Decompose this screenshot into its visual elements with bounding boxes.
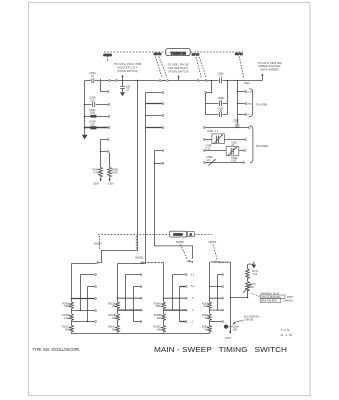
dashed ganged-switch line SW5 (top) <box>104 52 243 62</box>
note: to cathode pins 3 and 8 sweep holdoff <box>258 61 283 72</box>
capacitor C56 <box>120 81 131 93</box>
wire: plug feed vertical <box>237 81 239 125</box>
svg-text:(SW/CH): (SW/CH) <box>284 300 294 303</box>
resistor R174 divider top <box>246 264 259 281</box>
svg-text:SW50C: SW50C <box>176 241 185 244</box>
switch section label SW160D <box>208 241 217 260</box>
svg-text:10K: 10K <box>203 305 208 308</box>
wire: C58 ladder left vertical <box>205 81 213 115</box>
capacitor C58B <box>206 97 228 106</box>
note: variable uncalibrated with multiplier switch <box>260 292 293 302</box>
wafer 2 main vertical with resistors <box>116 264 145 334</box>
svg-text:T. G. W.: T. G. W. <box>281 329 290 332</box>
svg-text:SW 5B: SW 5B <box>154 53 162 56</box>
resistor R161A <box>108 302 116 308</box>
note: aux switch pointer <box>232 316 259 325</box>
svg-text:(TO CATH. PIN 8, V54B: (TO CATH. PIN 8, V54B <box>114 62 142 66</box>
capacitor C54D <box>84 121 110 130</box>
svg-text:2M: 2M <box>112 305 115 308</box>
mechanical dashed link SW5D <box>239 57 243 78</box>
svg-text:TIME/CM: TIME/CM <box>170 51 186 55</box>
contact stubs of SW5B lower deck <box>146 92 164 165</box>
resistor R161C <box>108 326 116 332</box>
capacitor C58D <box>233 119 240 127</box>
wafer 3 position value labels <box>191 273 196 323</box>
wafer 2 interconnects and contacts <box>117 274 142 323</box>
note: to grid pin 3 and 7 V52 <box>168 63 190 74</box>
svg-text:4.7M: 4.7M <box>93 171 99 174</box>
svg-text:6-25: 6-25 <box>231 160 236 163</box>
label C59B <box>205 145 211 151</box>
wire: selected-capacitor feed down to lower deck <box>102 81 138 262</box>
svg-text:SWEEP: SWEEP <box>173 233 183 237</box>
svg-text:SW 5C: SW 5C <box>192 53 200 56</box>
SWEEP TIME control box <box>170 231 194 237</box>
svg-text:1.5M: 1.5M <box>64 317 69 320</box>
svg-text:PICOSEC: PICOSEC <box>256 144 269 148</box>
svg-text:-150V: -150V <box>107 182 114 185</box>
picosec trimmer row 4 with trimmer C59E <box>203 156 244 165</box>
capacitor C58A <box>217 73 224 84</box>
wiper contact wafer 3 <box>188 260 193 262</box>
svg-text:SW5AB: SW5AB <box>103 54 112 57</box>
switch section label SW160A <box>94 236 103 250</box>
wire: third feed down <box>155 151 193 259</box>
resistor R166C <box>154 326 162 332</box>
svg-text:TO GRID, PIN 3&7: TO GRID, PIN 3&7 <box>168 63 190 67</box>
resistor R167 <box>202 302 208 308</box>
trimmer capacitor C59C <box>226 142 239 156</box>
label C59D <box>231 157 237 163</box>
svg-text:SW160: SW160 <box>208 241 217 244</box>
svg-text:.01: .01 <box>219 100 223 103</box>
svg-text:PLUG56: PLUG56 <box>256 102 268 106</box>
wafer 1 main vertical with resistors <box>70 264 74 334</box>
svg-text:6-25: 6-25 <box>205 147 210 150</box>
aux switch SW160A contact <box>224 325 240 332</box>
resistor R160B <box>62 314 70 320</box>
wiper contact wafer 4 <box>211 261 231 263</box>
wafer 1 interconnects and contacts <box>71 274 97 323</box>
mechanical dashed link SW5B <box>156 57 168 78</box>
svg-text:7.5: 7.5 <box>219 75 223 78</box>
svg-text:600: 600 <box>233 329 238 332</box>
plug pin labels <box>247 92 252 116</box>
svg-text:(M5): (M5) <box>247 104 252 106</box>
wiper contact wafer 2 <box>135 257 146 263</box>
wire: wafer1 wiper feed <box>72 263 97 265</box>
svg-text:TYPE 545 OSCILLOSCOPE: TYPE 545 OSCILLOSCOPE <box>32 347 80 352</box>
note: designer initials <box>280 329 292 337</box>
svg-text:220: 220 <box>90 99 95 102</box>
resistor R160C <box>62 326 70 332</box>
capacitor C54B <box>84 97 110 107</box>
wire: wafer3 wiper link <box>147 261 163 263</box>
svg-text:(POSN SWITCH): (POSN SWITCH) <box>168 69 188 73</box>
capacitor C54A <box>90 72 101 83</box>
wire: left capacitor bank bus <box>84 81 86 135</box>
svg-text:V52 SWP MULTI.: V52 SWP MULTI. <box>168 66 189 70</box>
plug contact stubs <box>237 91 247 116</box>
svg-text:5M: 5M <box>112 329 115 332</box>
trimmer capacitor C59A <box>207 130 224 144</box>
svg-text:SW50A: SW50A <box>94 243 103 246</box>
svg-text:2563: 2563 <box>90 112 96 115</box>
svg-text:40M: 40M <box>65 329 70 332</box>
box around uncalibrated <box>251 293 285 302</box>
resistor R160A <box>62 302 70 308</box>
resistor R161B <box>108 314 116 320</box>
wire: pot wiper to switch <box>230 297 249 299</box>
picosec bracket <box>250 126 269 163</box>
svg-text:50K: 50K <box>157 317 162 320</box>
arrow to note 2 <box>177 75 179 81</box>
svg-text:/5-1: /5-1 <box>191 285 196 288</box>
svg-text:WITH: WITH <box>287 296 293 299</box>
svg-text:-150V: -150V <box>93 182 100 185</box>
svg-text:HOLDOFF C.R.T.: HOLDOFF C.R.T. <box>117 65 138 69</box>
wiper contact wafer 1 <box>97 262 102 264</box>
arrow to note 1 <box>121 75 123 81</box>
switch section label SW160C <box>176 241 187 260</box>
picosec trimmer row 1 <box>203 127 250 129</box>
svg-text:(100): (100) <box>247 92 252 94</box>
svg-text:(POSN SWITCH): (POSN SWITCH) <box>117 69 137 73</box>
svg-text:2K: 2K <box>205 329 208 332</box>
ground at left bus <box>82 135 88 140</box>
svg-text:(MAIN SWEEP): (MAIN SWEEP) <box>260 68 278 72</box>
svg-text:SW50B: SW50B <box>135 257 143 259</box>
svg-text:5.6M: 5.6M <box>64 305 69 308</box>
TIME/CM control box <box>166 49 190 56</box>
svg-text:15K: 15K <box>250 286 255 289</box>
svg-text:470K: 470K <box>112 171 118 174</box>
resistor R50B <box>108 153 119 182</box>
svg-text:(SEL): (SEL) <box>244 82 250 85</box>
junction dots on bus <box>122 80 239 82</box>
wafer 3 main vertical with resistors <box>162 262 166 333</box>
wafer 4 main vertical with resistors <box>208 262 212 334</box>
wire: C58 ladder right vertical <box>227 81 229 115</box>
connector bracket PLUG56 <box>249 89 268 117</box>
resistor R169L <box>202 326 208 332</box>
svg-text:10 - 4 - 56: 10 - 4 - 56 <box>280 334 292 337</box>
picosec trimmer row 3 <box>203 150 245 152</box>
svg-text:1M: 1M <box>112 317 115 320</box>
variable resistor R175 <box>243 281 256 297</box>
wafer 4 interconnects and contacts <box>210 274 224 323</box>
svg-text:/S: /S <box>190 233 193 236</box>
dashed ganged-switch line SW160 (lower) <box>98 234 212 236</box>
wire: step contact below bus <box>101 83 109 92</box>
capacitor C54C <box>84 109 110 118</box>
svg-text:5.6K: 5.6K <box>252 273 257 276</box>
ground under C56 <box>120 92 125 96</box>
svg-text:TO CATH. PINS 3&8: TO CATH. PINS 3&8 <box>258 61 283 65</box>
ground above divider chain <box>248 261 257 268</box>
svg-text:100K: 100K <box>155 305 161 308</box>
wire: second feed down <box>145 93 147 263</box>
arrow to note 3 <box>261 73 263 80</box>
wiper contacts on bus <box>109 80 207 82</box>
resistor R54A <box>93 139 110 182</box>
wire: common bottom rail <box>72 333 210 335</box>
wafer 3 interconnects and contacts <box>163 274 187 323</box>
resistor R168 <box>202 314 208 320</box>
picosec trimmer row 2 <box>203 139 246 141</box>
wire: -100V drop <box>229 262 231 334</box>
svg-text:5K: 5K <box>205 317 208 320</box>
resistor R166A <box>154 302 162 308</box>
svg-text:C59A 4.1: C59A 4.1 <box>207 130 218 133</box>
resistor R166B <box>154 314 162 320</box>
svg-text:V169 (B): V169 (B) <box>244 319 254 322</box>
wire: main rotor bus of SW5B <box>85 80 263 82</box>
svg-text:(1): (1) <box>247 114 250 116</box>
svg-text:SW 5D: SW 5D <box>235 53 243 56</box>
mechanical dashed link SW5C <box>196 57 206 78</box>
mechanical dashed link wafer 2 <box>135 236 137 250</box>
svg-text:SWEEP HOLDOFF: SWEEP HOLDOFF <box>258 64 281 68</box>
svg-text:MAIN - SWEEP TIMING SWITCH: MAIN - SWEEP TIMING SWITCH <box>154 345 287 354</box>
svg-text:-100V: -100V <box>224 336 231 340</box>
svg-text:220: 220 <box>90 123 95 126</box>
note: to cathode pin 8 V54B <box>114 62 142 73</box>
capacitor C58C <box>206 107 228 117</box>
svg-text:20K: 20K <box>157 329 162 332</box>
